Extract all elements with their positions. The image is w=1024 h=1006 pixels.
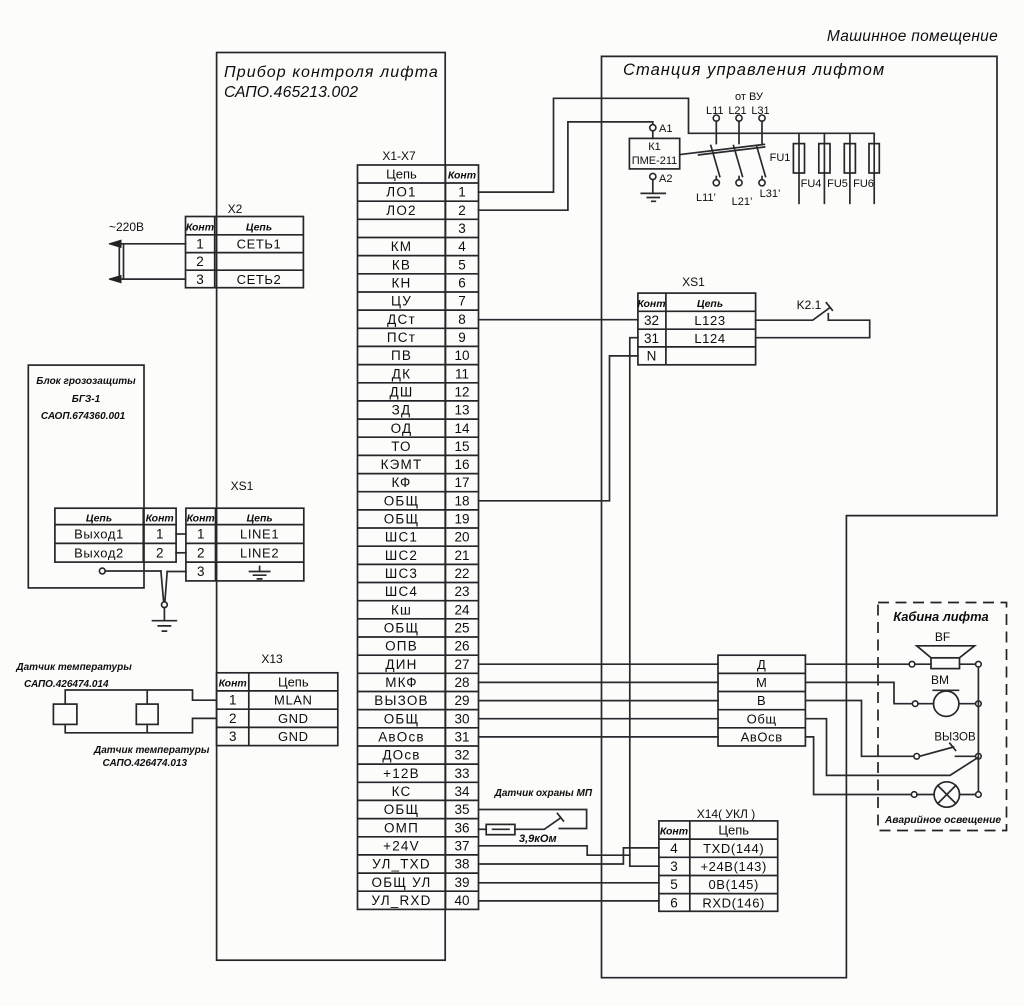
pin 16 КЭМТ of X1-X7 — [381, 457, 470, 472]
ground symbol below БГЗ — [153, 608, 177, 632]
svg-text:MLAN: MLAN — [274, 693, 313, 708]
pin 20 ШС1 of X1-X7 — [385, 530, 470, 545]
svg-text:БГЗ-1: БГЗ-1 — [72, 394, 101, 405]
svg-text:МКФ: МКФ — [385, 675, 418, 690]
svg-text:4: 4 — [670, 841, 678, 856]
pin 6 RXD(146) of X14 — [670, 895, 765, 910]
svg-text:ЗД: ЗД — [392, 403, 412, 418]
wire ДСт X1:8 to XS1:32 — [479, 319, 638, 321]
svg-text:32: 32 — [644, 313, 659, 328]
wire ОБЩ X1:30 to box Общ — [479, 718, 719, 720]
svg-text:Машинное помещение: Машинное помещение — [827, 28, 998, 45]
pin 1 Выход1 of БГЗ — [74, 527, 163, 542]
svg-text:ОБЩ: ОБЩ — [384, 802, 420, 817]
svg-text:FU6: FU6 — [853, 178, 874, 190]
wire ДИН X1:27 to box Д — [479, 663, 719, 665]
svg-text:ОБЩ: ОБЩ — [384, 711, 420, 726]
svg-text:САПО.465213.002: САПО.465213.002 — [224, 84, 358, 101]
wire ОБЩ УЛ X1:39 to X14:5 — [479, 882, 659, 884]
pin 38 УЛ_ТХD of X1-X7 — [372, 857, 469, 872]
svg-text:15: 15 — [454, 439, 469, 454]
wire ОМП X1:36 to resistor — [479, 828, 487, 830]
pin 2 LINE2 of XS1 — [197, 545, 279, 560]
wire ЛО2 X1:2 to K1 coil A1 — [479, 122, 653, 210]
wire БГЗ:1 to XS1:1 — [176, 533, 186, 535]
svg-text:37: 37 — [454, 838, 469, 853]
svg-text:УЛ_RXD: УЛ_RXD — [371, 893, 431, 908]
svg-text:29: 29 — [454, 693, 469, 708]
svg-text:ШС1: ШС1 — [385, 530, 418, 545]
svg-text:5: 5 — [458, 257, 466, 272]
svg-text:12: 12 — [454, 384, 469, 399]
connector X1-X7 — [358, 149, 479, 909]
svg-text:Станция управления лифтом: Станция управления лифтом — [623, 61, 885, 79]
svg-text:М: М — [756, 675, 767, 690]
svg-text:25: 25 — [454, 621, 469, 636]
svg-text:A1: A1 — [659, 123, 672, 135]
wire ОБЩ X1:35 loop — [479, 810, 587, 829]
svg-text:от ВУ: от ВУ — [735, 91, 764, 103]
svg-text:1: 1 — [458, 185, 466, 200]
svg-text:СЕТЬ2: СЕТЬ2 — [237, 272, 282, 287]
contact L11 of K1 — [706, 105, 724, 186]
svg-text:31: 31 — [644, 331, 659, 346]
pin 31 L124 of XS1 — [644, 331, 726, 346]
mains arrow top — [109, 240, 121, 244]
svg-text:L124: L124 — [694, 331, 725, 346]
svg-text:ДШ: ДШ — [390, 384, 414, 399]
svg-text:BF: BF — [935, 630, 950, 644]
fuse FU1 — [770, 133, 805, 203]
fuse FU5 — [827, 133, 855, 203]
wire A2 to ground — [652, 180, 654, 194]
svg-text:2: 2 — [458, 203, 466, 218]
svg-text:19: 19 — [454, 512, 469, 527]
svg-text:АвОсв: АвОсв — [741, 729, 783, 744]
pin 36 ОМП of X1-X7 — [384, 820, 470, 835]
svg-text:3: 3 — [196, 272, 204, 287]
svg-text:24: 24 — [454, 602, 470, 617]
svg-text:GND: GND — [278, 729, 309, 744]
svg-text:GND: GND — [278, 711, 309, 726]
svg-text:20: 20 — [454, 530, 469, 545]
switch ВЫЗОВ (call button) — [914, 732, 981, 760]
svg-text:11: 11 — [455, 366, 469, 381]
svg-text:L11’: L11’ — [696, 192, 716, 204]
pin 35 ОБЩ of X1-X7 — [384, 802, 470, 817]
connector X14 (УКЛ) — [659, 807, 778, 911]
connector XS1 (line protection) — [186, 479, 304, 581]
wire XS1 row3 to earth drop — [167, 571, 186, 573]
wire X2:3 to mains arrow — [121, 278, 186, 280]
pin 1 LINE1 of XS1 — [197, 527, 279, 542]
svg-text:~220В: ~220В — [109, 220, 144, 234]
wire XS1:N to ОБЩ X1:18 — [479, 356, 638, 501]
contact L31 of K1 — [751, 105, 769, 186]
pin 31 АвОсв of X1-X7 — [378, 730, 469, 745]
svg-text:Конт: Конт — [219, 678, 247, 690]
device box Блок грозозащиты БГЗ-1 САОП.674360.001 — [28, 365, 144, 588]
svg-text:22: 22 — [454, 566, 469, 581]
svg-text:Общ: Общ — [747, 711, 777, 726]
svg-text:+24V: +24V — [383, 838, 420, 853]
svg-text:Кш: Кш — [391, 602, 412, 617]
device box Кабина лифта (dashed) — [878, 603, 1007, 831]
svg-text:L123: L123 — [694, 313, 725, 328]
pin 32 L123 of XS1 — [644, 313, 726, 328]
svg-text:Выход2: Выход2 — [74, 545, 124, 560]
svg-text:Д: Д — [757, 657, 766, 672]
wire GND: sensors bottom bus to X13:2 — [65, 718, 216, 732]
svg-text:Аварийное освещение: Аварийное освещение — [884, 815, 1002, 826]
pin 25 ОБЩ of X1-X7 — [384, 621, 470, 636]
pin 9 ПСт of X1-X7 — [387, 330, 466, 345]
svg-text:39: 39 — [454, 875, 469, 890]
pin 1 ЛО1 of X1-X7 — [386, 185, 465, 200]
pin 2 Выход2 of БГЗ — [74, 545, 163, 560]
svg-text:ОБЩ: ОБЩ — [384, 621, 420, 636]
wire twisted pair down to earth point — [161, 571, 167, 602]
pin 30 ОБЩ of X1-X7 — [384, 711, 470, 726]
label датчик температуры САПО.426474.014 — [15, 662, 132, 690]
svg-text:XS1: XS1 — [682, 275, 705, 289]
pin 24 Кш of X1-X7 — [391, 602, 470, 617]
svg-text:35: 35 — [454, 802, 469, 817]
svg-text:САОП.674360.001: САОП.674360.001 — [41, 411, 126, 422]
connector XS1 (station) — [637, 275, 755, 365]
svg-text:Блок грозозащиты: Блок грозозащиты — [36, 376, 136, 387]
node A2 terminal — [650, 173, 656, 179]
pin 17 КФ of X1-X7 — [391, 475, 469, 490]
svg-text:33: 33 — [454, 766, 469, 781]
svg-text:X13: X13 — [261, 652, 283, 666]
svg-text:17: 17 — [454, 475, 469, 490]
svg-text:6: 6 — [670, 895, 678, 910]
temperature sensor 1 — [53, 704, 77, 724]
wire ВЫЗОВ X1:29 to box В — [479, 700, 719, 702]
svg-text:КМ: КМ — [391, 239, 413, 254]
svg-text:ОБЩ: ОБЩ — [384, 493, 420, 508]
svg-text:26: 26 — [454, 639, 469, 654]
pin 19 ОБЩ of X1-X7 — [384, 512, 470, 527]
ground (K1 coil) — [641, 193, 665, 201]
pin 1 СЕТЬ1 of X2 — [196, 237, 281, 252]
svg-text:Конт: Конт — [146, 513, 174, 525]
svg-text:ПМЕ-211: ПМЕ-211 — [632, 155, 678, 167]
svg-text:X2: X2 — [228, 202, 243, 216]
pin 18 ОБЩ of X1-X7 — [384, 493, 470, 508]
pin 23 ШС4 of X1-X7 — [385, 584, 470, 599]
svg-text:36: 36 — [454, 820, 469, 835]
fuse FU4 — [801, 133, 830, 203]
pin 37 +24V of X1-X7 — [383, 838, 469, 853]
switch датчик охраны МП — [515, 813, 564, 829]
svg-text:КВ: КВ — [392, 257, 411, 272]
svg-text:Конт: Конт — [187, 513, 215, 525]
svg-text:Цепь: Цепь — [278, 675, 309, 690]
svg-text:3: 3 — [197, 564, 205, 579]
connector table of БГЗ (Цепь/Конт) — [55, 508, 176, 562]
pin 12 ДШ of X1-X7 — [390, 384, 470, 399]
pin 22 ШС3 of X1-X7 — [385, 566, 470, 581]
svg-text:14: 14 — [454, 421, 470, 436]
pin 4 TXD(144) of X14 — [670, 841, 764, 856]
svg-text:КФ: КФ — [391, 475, 411, 490]
svg-text:A2: A2 — [659, 173, 672, 185]
pin 34 КС of X1-X7 — [392, 784, 470, 799]
svg-text:+12В: +12В — [383, 766, 420, 781]
wire K1 to contact linkage (double line) — [680, 144, 765, 155]
connector X2 — [186, 202, 304, 288]
svg-text:BM: BM — [931, 673, 949, 687]
svg-text:1: 1 — [196, 237, 204, 252]
svg-text:САПО.426474.014: САПО.426474.014 — [24, 679, 109, 690]
svg-text:КС: КС — [392, 784, 412, 799]
svg-text:27: 27 — [454, 657, 469, 672]
pin 6 КН of X1-X7 — [391, 276, 465, 291]
pin 10 ПВ of X1-X7 — [391, 348, 470, 363]
pin 5 КВ of X1-X7 — [392, 257, 466, 272]
svg-text:САПО.426474.013: САПО.426474.013 — [103, 758, 188, 769]
wire XS1:31 down distribution — [630, 338, 659, 867]
wire БГЗ:2 to XS1:2 — [176, 552, 186, 554]
svg-text:3,9кОм: 3,9кОм — [519, 833, 557, 845]
svg-text:Кабина лифта: Кабина лифта — [893, 609, 988, 624]
svg-text:ОБЩ УЛ: ОБЩ УЛ — [372, 875, 432, 890]
svg-text:8: 8 — [458, 312, 466, 327]
wire box М to microphone BM — [805, 682, 912, 703]
svg-text:40: 40 — [454, 893, 469, 908]
pin 1 MLAN of X13 — [229, 693, 313, 708]
wire box АвОсв to emergency lamp — [805, 737, 911, 795]
pin 26 ОПВ of X1-X7 — [385, 639, 469, 654]
speaker BF — [909, 630, 981, 669]
pin 29 ВЫЗОВ of X1-X7 — [374, 693, 469, 708]
svg-text:ВЫЗОВ: ВЫЗОВ — [374, 693, 428, 708]
wire Выход circle to earth drop — [105, 570, 161, 572]
svg-text:7: 7 — [458, 294, 466, 309]
pin 7 ЦУ of X1-X7 — [391, 294, 466, 309]
svg-text:FU4: FU4 — [801, 178, 822, 190]
svg-text:28: 28 — [454, 675, 469, 690]
svg-text:ДИН: ДИН — [385, 657, 417, 672]
svg-text:ПВ: ПВ — [391, 348, 412, 363]
pin 21 ШС2 of X1-X7 — [385, 548, 470, 563]
svg-text:30: 30 — [454, 711, 469, 726]
svg-text:Выход1: Выход1 — [74, 527, 124, 542]
pin 40 УЛ_RXD of X1-X7 — [371, 893, 469, 908]
svg-text:ШС2: ШС2 — [385, 548, 418, 563]
svg-text:Прибор контроля лифта: Прибор контроля лифта — [224, 64, 439, 81]
wire phase bus to fuses — [716, 132, 873, 134]
svg-text:6: 6 — [458, 276, 466, 291]
wire MLAN: sensors top bus to X13:1 — [65, 690, 216, 704]
resistor 3,9кОм — [486, 824, 515, 834]
svg-text:L31’: L31’ — [760, 188, 781, 200]
microphone BM — [912, 673, 981, 716]
svg-text:ЦУ: ЦУ — [391, 294, 412, 309]
junction mains cable double-line — [119, 244, 123, 279]
lamp аварийное освещение — [911, 782, 981, 807]
svg-text:RXD(146): RXD(146) — [702, 895, 765, 910]
switch K2.1 — [756, 298, 870, 338]
svg-text:31: 31 — [454, 730, 469, 745]
node Выход terminal circle of БГЗ — [99, 568, 105, 574]
pin 39 ОБЩ УЛ of X1-X7 — [372, 875, 470, 890]
pin 2 of X2 — [196, 254, 204, 269]
svg-text:Конт: Конт — [637, 298, 665, 310]
svg-text:9: 9 — [458, 330, 466, 345]
svg-text:КН: КН — [391, 276, 411, 291]
pin 15 ТО of X1-X7 — [391, 439, 469, 454]
svg-text:FU5: FU5 — [827, 178, 848, 190]
svg-text:В: В — [757, 693, 766, 708]
pin 2 GND of X13 — [229, 711, 309, 726]
svg-text:ДСт: ДСт — [387, 312, 416, 327]
svg-text:УЛ_ТХD: УЛ_ТХD — [372, 857, 431, 872]
svg-text:Цепь: Цепь — [718, 823, 749, 838]
svg-text:ОБЩ: ОБЩ — [384, 512, 420, 527]
svg-text:2: 2 — [196, 254, 204, 269]
svg-text:Цепь: Цепь — [247, 513, 273, 525]
wire box В to call button — [805, 701, 914, 757]
node earth terminal circle — [162, 602, 168, 608]
svg-text:3: 3 — [458, 221, 466, 236]
wire МКФ X1:28 to box М — [479, 681, 719, 683]
pin 5 0В(145) of X14 — [670, 877, 759, 892]
svg-text:Датчик температуры: Датчик температуры — [15, 662, 132, 673]
svg-text:ПСт: ПСт — [387, 330, 416, 345]
svg-text:L21’: L21’ — [732, 196, 753, 208]
svg-text:32: 32 — [454, 748, 469, 763]
wire АвОсв X1:31 to box АвОсв — [479, 736, 719, 738]
svg-text:38: 38 — [454, 857, 469, 872]
svg-text:ВЫЗОВ: ВЫЗОВ — [934, 732, 976, 744]
pin 27 ДИН of X1-X7 — [385, 657, 469, 672]
svg-text:N: N — [647, 349, 657, 364]
svg-text:21: 21 — [454, 548, 469, 563]
svg-text:Цепь: Цепь — [86, 513, 112, 525]
svg-text:+24В(143): +24В(143) — [700, 859, 766, 874]
pin 2 ЛО2 of X1-X7 — [386, 203, 465, 218]
svg-text:K2.1: K2.1 — [797, 298, 822, 312]
svg-text:СЕТЬ1: СЕТЬ1 — [237, 237, 282, 252]
pin 11 ДК of X1-X7 — [392, 366, 469, 381]
svg-text:4: 4 — [458, 239, 466, 254]
svg-text:ДОсв: ДОсв — [382, 748, 420, 763]
wire ЛО1 X1:1 to phase bus — [479, 98, 717, 192]
svg-text:5: 5 — [670, 877, 678, 892]
svg-text:Конт: Конт — [186, 222, 214, 234]
svg-text:Цепь: Цепь — [697, 298, 723, 310]
svg-text:АвОсв: АвОсв — [378, 730, 425, 745]
pin 3 +24В(143) of X14 — [670, 859, 767, 874]
connector X13 — [217, 652, 338, 746]
contact L21 of K1 — [728, 105, 746, 186]
wire box Общ to right bus — [805, 719, 977, 776]
svg-text:3: 3 — [670, 859, 678, 874]
pin N of XS1 — [647, 349, 657, 364]
svg-text:LINE2: LINE2 — [240, 545, 279, 560]
svg-text:2: 2 — [197, 545, 205, 560]
wire cabin right bus — [977, 667, 979, 792]
svg-text:13: 13 — [454, 403, 469, 418]
svg-text:X1-X7: X1-X7 — [382, 149, 416, 163]
svg-text:ДК: ДК — [392, 366, 411, 381]
svg-text:0В(145): 0В(145) — [708, 877, 758, 892]
pin 3 GND of X13 — [229, 729, 309, 744]
temperature sensor 2 — [136, 704, 158, 724]
svg-text:XS1: XS1 — [231, 479, 254, 493]
wire box Д to speaker BF — [805, 663, 909, 665]
svg-text:2: 2 — [156, 545, 164, 560]
terminal block Д/М/В/Общ/АвОсв — [718, 655, 805, 746]
wire УЛ_RXD X1:40 to X14:6 — [479, 900, 659, 902]
svg-text:ТО: ТО — [391, 439, 412, 454]
fuse FU6 — [853, 133, 879, 203]
svg-text:10: 10 — [454, 348, 469, 363]
pin 14 ОД of X1-X7 — [391, 421, 470, 436]
svg-text:23: 23 — [454, 584, 469, 599]
svg-text:3: 3 — [229, 729, 237, 744]
svg-text:ОПВ: ОПВ — [385, 639, 418, 654]
node A1 terminal — [650, 125, 656, 131]
wire A1 to K1 coil — [652, 131, 654, 139]
svg-text:Цепь: Цепь — [386, 167, 417, 182]
pin 8 ДСт of X1-X7 — [387, 312, 466, 327]
svg-text:1: 1 — [197, 527, 205, 542]
svg-text:1: 1 — [156, 527, 164, 542]
svg-text:Конт: Конт — [448, 170, 476, 182]
contactor coil K1 ПМЕ-211 — [629, 138, 679, 169]
svg-text:X14( УКЛ ): X14( УКЛ ) — [697, 807, 756, 821]
svg-text:Датчик температуры: Датчик температуры — [93, 745, 210, 756]
svg-text:К1: К1 — [648, 141, 661, 153]
svg-text:ОД: ОД — [391, 421, 413, 436]
device box Станция управления лифтом — [602, 56, 998, 977]
svg-text:34: 34 — [454, 784, 470, 799]
svg-text:КЭМТ: КЭМТ — [381, 457, 423, 472]
wire +24V X1:37 to X14:3 — [479, 846, 630, 855]
pin 3 СЕТЬ2 of X2 — [196, 272, 281, 287]
svg-text:18: 18 — [454, 493, 469, 508]
svg-text:ЛО2: ЛО2 — [386, 203, 416, 218]
svg-text:Конт: Конт — [660, 826, 688, 838]
svg-text:2: 2 — [229, 711, 237, 726]
pin 3 ground of XS1 — [197, 564, 270, 579]
svg-text:ОМП: ОМП — [384, 820, 419, 835]
pin 3 (blank) of X1-X7 — [458, 221, 466, 236]
svg-text:Датчик охраны МП: Датчик охраны МП — [494, 788, 593, 799]
wire УЛ_ТХD X1:38 to X14:4 — [479, 848, 659, 864]
svg-text:ШС3: ШС3 — [385, 566, 418, 581]
svg-text:TXD(144): TXD(144) — [703, 841, 764, 856]
svg-text:Цепь: Цепь — [246, 222, 272, 234]
svg-text:16: 16 — [454, 457, 469, 472]
pin 28 МКФ of X1-X7 — [385, 675, 469, 690]
pin 4 КМ of X1-X7 — [391, 239, 467, 254]
pin 33 +12В of X1-X7 — [383, 766, 469, 781]
device box Прибор контроля лифта САПО.465213.002 — [217, 53, 446, 961]
svg-text:LINE1: LINE1 — [240, 527, 279, 542]
pin 32 ДОсв of X1-X7 — [382, 748, 469, 763]
label датчик температуры САПО.426474.013 — [93, 745, 210, 769]
svg-text:ЛО1: ЛО1 — [386, 185, 416, 200]
svg-text:ШС4: ШС4 — [385, 584, 418, 599]
mains arrow bottom — [109, 276, 121, 280]
wire X2:1 to mains arrow — [121, 243, 186, 245]
svg-text:FU1: FU1 — [770, 152, 791, 164]
